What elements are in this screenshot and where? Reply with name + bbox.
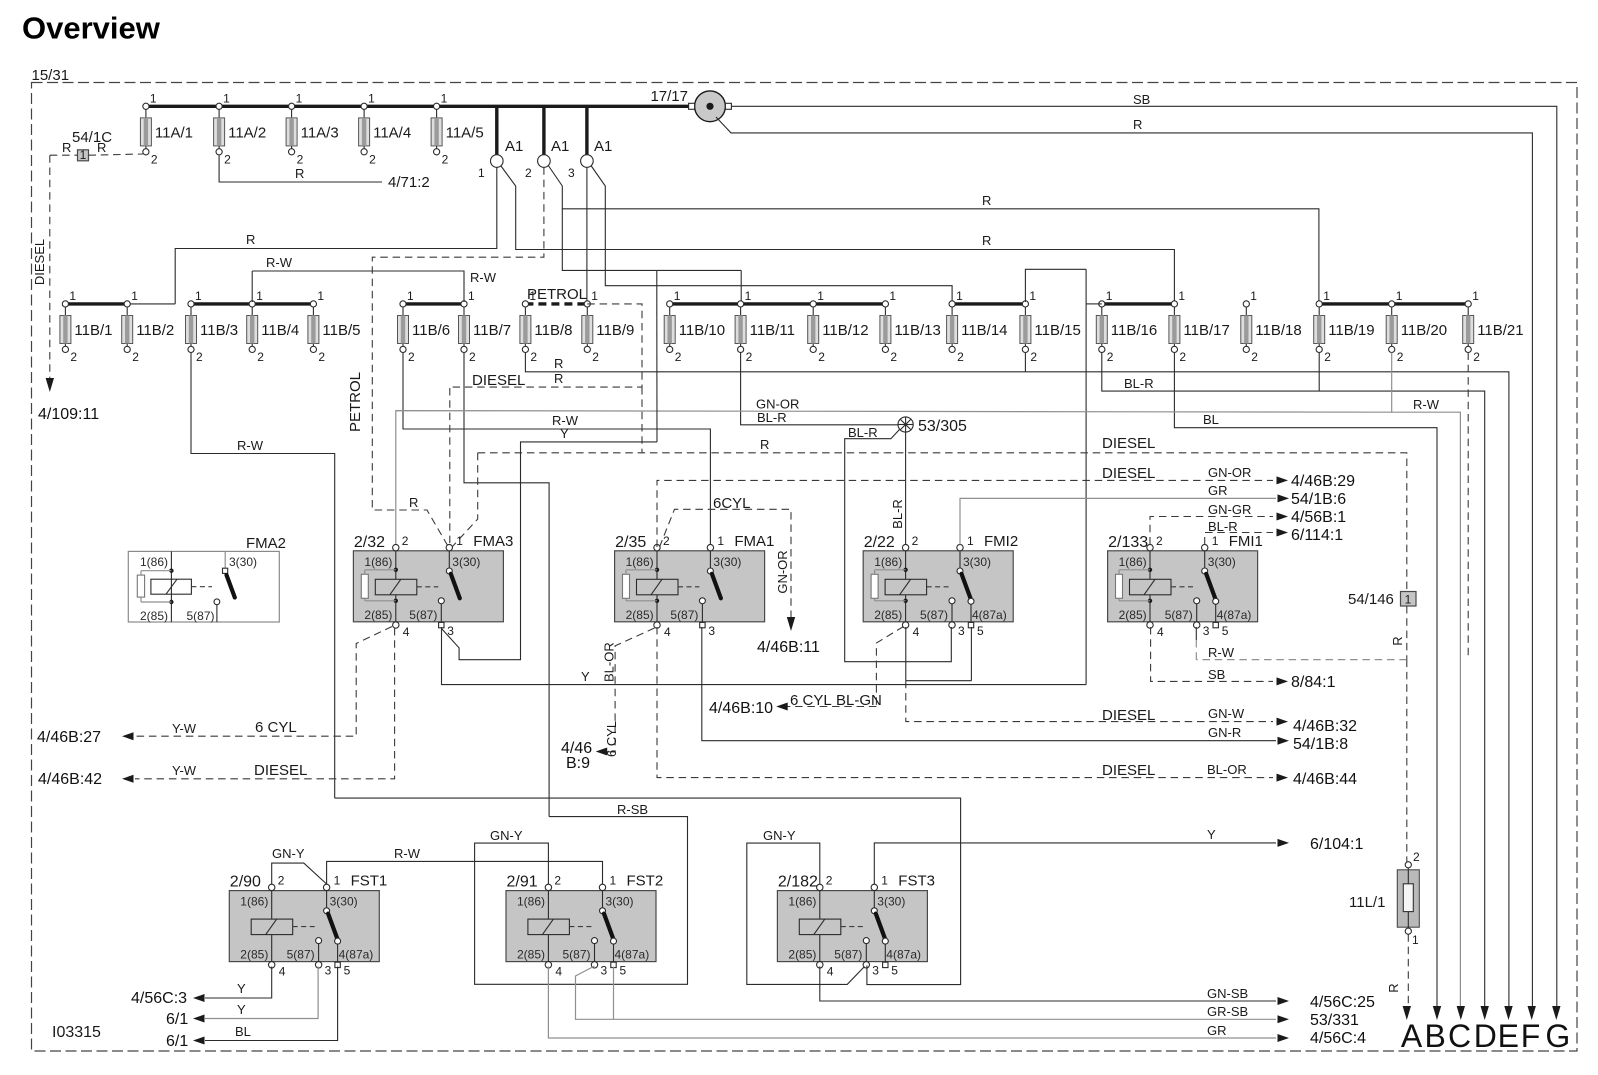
wire dashed SB 2/133:4 to 8/84:1 [1151, 627, 1273, 681]
fuse 11B/3 [186, 289, 239, 364]
bus 11B/6-11B/7 [403, 302, 464, 305]
svg-text:15/31: 15/31 [32, 67, 70, 84]
wire R from A1:1 left to 11B/2 [175, 167, 497, 304]
svg-text:Overview: Overview [22, 11, 161, 46]
relay 2/22 FMI2 body [863, 533, 1018, 639]
svg-text:3(30): 3(30) [877, 895, 905, 909]
svg-text:11L/1: 11L/1 [1349, 894, 1385, 911]
svg-text:2: 2 [196, 350, 203, 364]
svg-text:DIESEL: DIESEL [472, 372, 525, 389]
svg-text:Y: Y [237, 981, 246, 996]
svg-text:2/91: 2/91 [507, 874, 538, 891]
bus 11B/3-11B/5 [191, 302, 313, 305]
svg-text:5(87): 5(87) [920, 608, 948, 622]
svg-text:3(30): 3(30) [1208, 555, 1236, 569]
svg-text:1: 1 [1472, 289, 1479, 303]
svg-text:BL: BL [235, 1024, 251, 1039]
svg-text:53/305: 53/305 [918, 418, 967, 435]
bus 11B/19-11B/21 [1319, 302, 1468, 305]
svg-text:3: 3 [708, 624, 715, 638]
wire dashed DIESEL/GN-OR rail to 4/46B:29 [657, 480, 1273, 547]
svg-text:PETROL: PETROL [347, 372, 364, 432]
wire BL-R lamp down to 2/22:2 [905, 432, 907, 544]
svg-text:GN-SB: GN-SB [1207, 986, 1248, 1001]
svg-text:2: 2 [890, 350, 897, 364]
svg-text:2(85): 2(85) [240, 948, 268, 962]
bus PETROL dashed 11B/8-11B/9 [525, 302, 587, 305]
fuse 11B/17 [1169, 289, 1230, 364]
wire Y FST3:1 to 6/104:1 [874, 843, 1276, 884]
svg-text:4: 4 [913, 625, 920, 639]
svg-text:Y: Y [1207, 827, 1216, 842]
svg-text:8/84:1: 8/84:1 [1291, 674, 1336, 691]
wire 2/133:3 stub [1195, 627, 1197, 640]
svg-text:1: 1 [1396, 289, 1403, 303]
svg-text:11A/5: 11A/5 [446, 124, 484, 141]
svg-text:11B/19: 11B/19 [1328, 322, 1374, 339]
svg-text:R: R [246, 232, 255, 247]
svg-text:11B/2: 11B/2 [136, 322, 174, 339]
svg-text:2: 2 [1397, 350, 1404, 364]
svg-text:BL-R: BL-R [848, 425, 878, 440]
svg-text:11B/15: 11B/15 [1034, 322, 1080, 339]
wire FST2:5 drop to GR-SB [613, 967, 615, 1020]
svg-text:2: 2 [592, 350, 599, 364]
svg-text:5(87): 5(87) [563, 948, 591, 962]
svg-text:5(87): 5(87) [834, 948, 862, 962]
svg-text:R-W: R-W [237, 438, 264, 453]
wire R from A1:2 diagonal to 11B/19 [548, 166, 1319, 304]
svg-text:GN-Y: GN-Y [272, 846, 305, 861]
node G [1552, 1006, 1560, 1020]
wire dashed GN-W 2/22:4+5 to 4/46B:32 [970, 627, 972, 681]
wire Y FST1:4 to 4/56C:3 [205, 967, 272, 999]
svg-text:DIESEL: DIESEL [32, 239, 47, 285]
svg-text:Y-W: Y-W [172, 763, 197, 778]
wire R from A1:1 right to 11B/17 [501, 166, 1174, 303]
svg-text:C: C [1448, 1018, 1471, 1054]
svg-text:53/331: 53/331 [1310, 1012, 1359, 1029]
svg-text:BL-OR: BL-OR [602, 642, 617, 682]
svg-text:11B/3: 11B/3 [200, 322, 238, 339]
svg-text:1: 1 [591, 289, 598, 303]
svg-text:2: 2 [1156, 534, 1163, 548]
svg-text:FMI2: FMI2 [984, 533, 1018, 550]
svg-text:F: F [1521, 1018, 1541, 1054]
node C [1457, 1006, 1465, 1020]
fuse 11B/7 [459, 289, 512, 364]
svg-text:GN-GR: GN-GR [1208, 502, 1251, 517]
svg-text:2: 2 [530, 350, 537, 364]
svg-text:2/35: 2/35 [615, 534, 646, 551]
svg-text:B: B [1425, 1018, 1446, 1054]
svg-text:1(86): 1(86) [517, 895, 545, 909]
wire dashed R rail y453 to 54/146 and A [478, 453, 1407, 591]
svg-text:11A/3: 11A/3 [301, 124, 339, 141]
wire dashed DIESEL vertical to 2/32:1 [449, 388, 451, 546]
node E [1504, 1006, 1512, 1020]
lamp 53/305 [898, 417, 967, 435]
fuse 11B/6 [398, 289, 451, 364]
connector A1 pin 1 [478, 108, 523, 180]
svg-text:GN-R: GN-R [1208, 725, 1241, 740]
fuse 11B/21 [1463, 289, 1524, 364]
svg-text:SB: SB [1208, 667, 1225, 682]
svg-text:2: 2 [151, 152, 158, 166]
svg-text:11B/10: 11B/10 [679, 322, 725, 339]
svg-text:1: 1 [317, 289, 324, 303]
svg-text:1: 1 [610, 874, 617, 888]
svg-text:1: 1 [368, 91, 375, 105]
svg-text:4/46B:29: 4/46B:29 [1291, 473, 1355, 490]
svg-text:4/56C:25: 4/56C:25 [1310, 994, 1375, 1011]
svg-text:BL-R: BL-R [757, 410, 787, 425]
bus 11B/16-11B/17 [1102, 302, 1175, 305]
svg-text:2: 2 [408, 350, 415, 364]
wire dashed R-W corner to 2/133:3 [1196, 659, 1407, 661]
fuse 11B/2 [122, 289, 175, 364]
wire BL-R lamp to 2/22 lower branch [845, 430, 952, 662]
svg-text:R: R [982, 233, 991, 248]
svg-text:1: 1 [334, 874, 341, 888]
wire 11B/15:2 to R rail [1024, 353, 1026, 372]
svg-text:3: 3 [872, 964, 879, 978]
svg-text:Y: Y [237, 1002, 246, 1017]
svg-text:3: 3 [958, 624, 965, 638]
svg-text:2: 2 [1413, 850, 1420, 864]
svg-text:11B/9: 11B/9 [596, 322, 634, 339]
svg-text:Y-W: Y-W [172, 721, 197, 736]
wire GN-SB FST3:4 to 4/56C:25 [820, 967, 1276, 1002]
svg-text:3(30): 3(30) [713, 555, 741, 569]
relay 2/91 FST2 body [506, 873, 663, 979]
svg-text:FST2: FST2 [627, 873, 664, 890]
svg-text:1: 1 [745, 289, 752, 303]
svg-text:1: 1 [817, 289, 824, 303]
svg-text:4(87a): 4(87a) [1217, 608, 1252, 622]
fuse 11A/4 [359, 91, 412, 166]
connector 17/17 [650, 88, 731, 122]
svg-text:2: 2 [957, 350, 964, 364]
svg-text:1(86): 1(86) [364, 555, 392, 569]
svg-text:3(30): 3(30) [452, 555, 480, 569]
svg-text:1: 1 [441, 91, 448, 105]
svg-text:11B/16: 11B/16 [1111, 322, 1157, 339]
svg-text:FST3: FST3 [898, 873, 935, 890]
svg-text:SB: SB [1133, 92, 1150, 107]
svg-text:4/46B:10: 4/46B:10 [709, 700, 773, 717]
wire dashed R 11L/1 to A [1407, 934, 1409, 1008]
fuse 11B/14 [947, 289, 1008, 364]
svg-text:2: 2 [70, 350, 77, 364]
wire DIESEL dashed left vertical to 4/109:11 [49, 155, 51, 379]
svg-text:54/1B:6: 54/1B:6 [1291, 491, 1346, 508]
svg-text:R: R [62, 140, 71, 155]
svg-text:1: 1 [529, 289, 536, 303]
wire bridge 11B/15 to 11B/16 area [1025, 269, 1086, 302]
svg-text:1: 1 [69, 289, 76, 303]
svg-text:BL-GN: BL-GN [836, 692, 882, 709]
wire R 11A/2:2 to 4/71:2 [219, 155, 382, 182]
svg-text:2: 2 [402, 534, 409, 548]
connector A1 pin 3 [568, 108, 612, 180]
svg-text:GR: GR [1208, 483, 1228, 498]
svg-text:1(86): 1(86) [874, 555, 902, 569]
svg-text:6/104:1: 6/104:1 [1310, 836, 1363, 853]
wire R-W rail FST1:1 to FST2:1 [327, 861, 603, 884]
svg-text:4/46B:32: 4/46B:32 [1293, 718, 1357, 735]
wire from A1:3 straight to 11B/8 [586, 167, 588, 301]
connector 54/146 [1348, 591, 1416, 608]
wire R dashed 54/1C right to 11A/1:2 [89, 154, 144, 155]
bus 11B/1-11B/2 [65, 302, 127, 305]
relay 2/182 FST3 body [777, 873, 935, 979]
wire R-SB loop around FST2 [475, 817, 688, 985]
relay 2/35 FMA1 body [615, 533, 775, 639]
fuse 11B/1 [60, 289, 113, 364]
svg-text:R-W: R-W [470, 270, 497, 285]
fuse 11B/9 [582, 289, 635, 364]
svg-text:2: 2 [746, 350, 753, 364]
svg-text:1: 1 [889, 289, 896, 303]
connector 54/1C [72, 129, 112, 162]
svg-text:2: 2 [1107, 350, 1114, 364]
svg-text:1(86): 1(86) [240, 895, 268, 909]
svg-text:BL-R: BL-R [1208, 519, 1238, 534]
svg-text:R-SB: R-SB [617, 802, 648, 817]
svg-text:R: R [1390, 636, 1405, 645]
fuse 11B/12 [808, 289, 869, 364]
svg-text:4/56C:4: 4/56C:4 [1310, 1030, 1366, 1047]
fuse 11B/15 [1020, 289, 1081, 364]
svg-text:2/90: 2/90 [230, 874, 261, 891]
wire dashed from A1:2 via PETROL to 2/32:1 [372, 167, 544, 547]
svg-text:2/182: 2/182 [778, 874, 818, 891]
wire R-W 11B/6:2 to 2/35:1 [403, 353, 710, 545]
svg-text:R-W: R-W [394, 846, 421, 861]
svg-text:1: 1 [1212, 534, 1219, 548]
svg-text:4(87a): 4(87a) [615, 948, 650, 962]
svg-text:17/17: 17/17 [650, 88, 688, 105]
fuse 11A/2 [214, 91, 267, 166]
svg-text:11B/4: 11B/4 [261, 322, 299, 339]
svg-text:2: 2 [442, 152, 449, 166]
svg-text:6CYL: 6CYL [713, 495, 751, 512]
wire R 11B/8:2 to E [525, 353, 1509, 1009]
wire long vertical x1086 down to Y rail [1085, 269, 1087, 684]
svg-text:2(85): 2(85) [140, 609, 168, 623]
svg-text:4: 4 [555, 965, 562, 979]
bus 11A row [146, 105, 692, 108]
svg-text:5(87): 5(87) [1165, 608, 1193, 622]
svg-text:D: D [1474, 1018, 1497, 1054]
svg-text:2/133: 2/133 [1108, 534, 1148, 551]
svg-text:1(86): 1(86) [1119, 555, 1147, 569]
wire Y rail 2/32:3 to x1086 [442, 627, 1087, 685]
svg-text:11B/20: 11B/20 [1401, 322, 1447, 339]
svg-text:2: 2 [912, 534, 919, 548]
svg-text:A1: A1 [594, 138, 612, 155]
wire dashed 11B/21:2 to A net [1467, 353, 1469, 660]
svg-text:1: 1 [223, 91, 230, 105]
svg-text:4: 4 [279, 965, 286, 979]
svg-text:1: 1 [1323, 289, 1330, 303]
wire dashed BL-R 2/133:1 to 6/114:1 [1205, 533, 1273, 545]
fuse 11B/8 [520, 289, 573, 364]
wire GR 2/22:1 to 54/1B:6 [960, 498, 1276, 544]
node F [1528, 1006, 1536, 1020]
svg-text:GR: GR [1207, 1023, 1227, 1038]
svg-text:1: 1 [456, 534, 463, 548]
svg-text:4: 4 [664, 625, 671, 639]
svg-text:4/109:11: 4/109:11 [38, 406, 99, 423]
svg-text:R: R [982, 193, 991, 208]
svg-text:G: G [1545, 1018, 1570, 1054]
wire GN-Y FST1 T2-T1 bridge [272, 863, 327, 884]
svg-text:4(87a): 4(87a) [339, 948, 374, 962]
svg-text:R: R [295, 166, 304, 181]
wire R-W 11B/3-5 bus drop [251, 271, 253, 302]
svg-text:3: 3 [325, 964, 332, 978]
svg-text:GN-W: GN-W [1208, 706, 1245, 721]
wire BL FST1:5 to 6/1 [205, 967, 338, 1041]
svg-text:4/56B:1: 4/56B:1 [1291, 509, 1346, 526]
svg-text:DIESEL: DIESEL [1102, 465, 1155, 482]
wire 11B/19:2 drop [1318, 353, 1320, 392]
svg-text:R: R [97, 140, 106, 155]
svg-text:R: R [760, 437, 769, 452]
svg-text:1: 1 [674, 289, 681, 303]
wire BL-R 11B/16:2 to D [1102, 353, 1485, 1009]
svg-text:Y: Y [560, 426, 569, 441]
svg-text:BL: BL [1203, 412, 1219, 427]
svg-text:DIESEL: DIESEL [1102, 707, 1155, 724]
wire dashed riser to 2/32:1 [452, 453, 478, 548]
svg-text:1: 1 [478, 166, 485, 180]
svg-text:1: 1 [256, 289, 263, 303]
svg-text:5(87): 5(87) [287, 948, 315, 962]
svg-text:FMA1: FMA1 [734, 533, 774, 550]
svg-text:3: 3 [1203, 624, 1210, 638]
svg-text:3(30): 3(30) [606, 895, 634, 909]
svg-text:DIESEL: DIESEL [1102, 435, 1155, 452]
svg-text:1: 1 [717, 534, 724, 548]
svg-text:5: 5 [891, 964, 898, 978]
svg-text:54/1B:8: 54/1B:8 [1293, 736, 1348, 753]
svg-text:2(85): 2(85) [874, 608, 902, 622]
fuse 11B/19 [1314, 289, 1375, 364]
svg-text:4/71:2: 4/71:2 [388, 174, 430, 191]
svg-text:4/46B:44: 4/46B:44 [1293, 771, 1357, 788]
svg-text:5: 5 [344, 964, 351, 978]
svg-text:1: 1 [195, 289, 202, 303]
fuse 11A/3 [286, 91, 339, 166]
fuse 11A/5 [431, 91, 484, 166]
svg-text:2: 2 [297, 152, 304, 166]
svg-text:2/32: 2/32 [354, 534, 385, 551]
svg-text:3: 3 [568, 166, 575, 180]
svg-text:5(87): 5(87) [187, 609, 215, 623]
fuse 11B/13 [880, 289, 941, 364]
svg-text:6 CYL: 6 CYL [255, 719, 297, 736]
svg-text:4: 4 [1157, 625, 1164, 639]
relay 2/133 FMI1 body [1108, 533, 1263, 639]
svg-text:4/56C:3: 4/56C:3 [131, 990, 187, 1007]
wire dashed GN-GR 2/133:2 to 4/56B:1 [1150, 517, 1273, 545]
wire R-W from A1:3 diagonal right [591, 166, 952, 303]
svg-text:GN-OR: GN-OR [756, 397, 799, 412]
svg-text:R: R [554, 356, 563, 371]
svg-text:2: 2 [1179, 350, 1186, 364]
svg-text:2: 2 [469, 350, 476, 364]
svg-text:11B/17: 11B/17 [1183, 322, 1229, 339]
svg-text:R: R [1133, 117, 1142, 132]
svg-text:1: 1 [1412, 933, 1419, 947]
svg-text:2: 2 [554, 874, 561, 888]
svg-text:2: 2 [257, 350, 264, 364]
wire dashed 6CYL to 2/35:2 and 4/46B:11 [660, 509, 792, 618]
wire BL-R 11B/11:2 to lamp 53/305 [741, 353, 899, 425]
svg-text:2: 2 [1324, 350, 1331, 364]
wire from A1:2 drop to 11B/10-13 bus and 11B/11 [562, 209, 657, 271]
svg-text:A1: A1 [505, 138, 523, 155]
wire Y FST1:3 to 6/1 [205, 967, 318, 1019]
svg-text:2: 2 [675, 350, 682, 364]
svg-text:2: 2 [1030, 350, 1037, 364]
connector A1 pin 2 [525, 108, 569, 180]
svg-text:GN-Y: GN-Y [763, 828, 796, 843]
svg-text:4/46B:11: 4/46B:11 [757, 639, 820, 656]
svg-text:2: 2 [224, 152, 231, 166]
svg-text:4: 4 [403, 625, 410, 639]
svg-text:11B/12: 11B/12 [822, 322, 868, 339]
wire R-W gray 11B/20:2 to C [1392, 353, 1461, 1009]
wire dashed Y-W DIESEL 2/32:4 to 4/46B:42 [135, 628, 395, 779]
node A [1403, 1006, 1411, 1020]
svg-text:GR-SB: GR-SB [1207, 1004, 1248, 1019]
svg-text:2: 2 [318, 350, 325, 364]
wire R-W rail y271 to right side [252, 271, 464, 302]
bus 11B/10-11B/13 [670, 302, 886, 305]
svg-text:11B/8: 11B/8 [534, 322, 572, 339]
svg-text:2(85): 2(85) [788, 948, 816, 962]
svg-text:11B/11: 11B/11 [750, 322, 795, 339]
svg-text:Y: Y [581, 669, 590, 684]
svg-text:2: 2 [278, 874, 285, 888]
wire 11B/7:2 down R-SB net [464, 353, 549, 817]
svg-text:FMA2: FMA2 [246, 535, 286, 552]
svg-text:R: R [409, 495, 418, 510]
svg-text:2: 2 [818, 350, 825, 364]
svg-text:1: 1 [407, 289, 414, 303]
fuse 11B/20 [1386, 289, 1447, 364]
svg-text:DIESEL: DIESEL [1102, 762, 1155, 779]
svg-text:6 CYL: 6 CYL [604, 721, 619, 757]
wire dashed 2/22:4 to 4/46B:10 [876, 627, 903, 707]
wire Y net 2/32:3 to bus and rail [442, 442, 658, 660]
wire SB from 17/17 to G [731, 106, 1556, 1008]
svg-text:6/1: 6/1 [166, 1033, 188, 1050]
svg-text:1: 1 [956, 289, 963, 303]
fuse 11B/5 [308, 289, 361, 364]
svg-text:54/146: 54/146 [1348, 591, 1394, 608]
bus 11B/14-11B/15 [952, 302, 1025, 305]
fuse 11L/1 [1349, 850, 1420, 947]
svg-text:1: 1 [967, 534, 974, 548]
svg-text:R-W: R-W [1413, 397, 1440, 412]
svg-text:1(86): 1(86) [626, 555, 654, 569]
svg-text:A1: A1 [551, 138, 569, 155]
